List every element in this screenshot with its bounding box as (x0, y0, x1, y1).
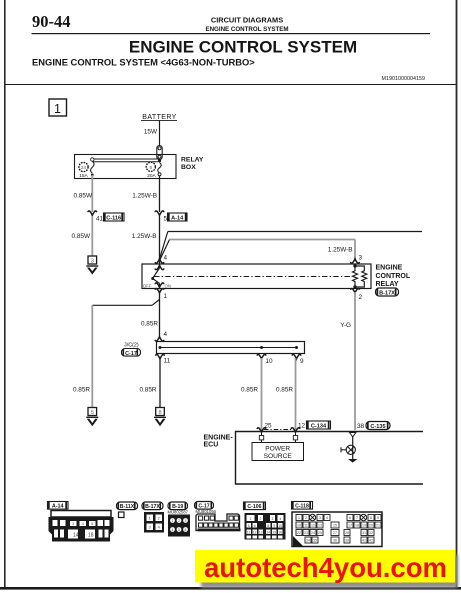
svg-text:16: 16 (278, 531, 282, 535)
svg-text:OFF: OFF (143, 284, 152, 289)
svg-text:C-116: C-116 (106, 216, 121, 222)
svg-text:CONTROL: CONTROL (376, 273, 411, 280)
svg-text:10: 10 (266, 358, 274, 365)
svg-text:5: 5 (248, 524, 250, 528)
connector drawing C-106 (245, 513, 286, 540)
svg-text:ON: ON (165, 284, 172, 289)
svg-text:21: 21 (376, 524, 380, 528)
svg-text:9: 9 (377, 516, 379, 520)
connector label B-19 (168, 502, 188, 510)
svg-text:7: 7 (356, 516, 358, 520)
svg-text:35: 35 (313, 539, 317, 543)
connector label B-17X (376, 288, 399, 297)
svg-text:0.85R: 0.85R (276, 387, 293, 394)
svg-text:M1901000004159: M1901000004159 (382, 76, 425, 82)
C-134 connector grouping dash-dot (264, 429, 292, 431)
svg-text:9: 9 (300, 358, 304, 365)
svg-text:3: 3 (149, 526, 151, 530)
svg-text:18: 18 (88, 533, 94, 539)
svg-text:B-17X: B-17X (379, 291, 395, 297)
ENGINE-ECU box (236, 432, 424, 485)
svg-text:B-17X: B-17X (145, 504, 160, 510)
wire from relay pin 1 down (159, 292, 161, 337)
svg-text:0.85R: 0.85R (241, 387, 258, 394)
svg-text:15: 15 (333, 524, 337, 528)
connector label B-17X (142, 502, 163, 510)
wire 0.85W from C-116 to ground 3 (91, 216, 93, 256)
svg-text:ENGINE CONTROL SYSTEM: ENGINE CONTROL SYSTEM (129, 38, 357, 57)
branch diagonal to gray bus (160, 240, 170, 261)
svg-text:4: 4 (82, 522, 84, 526)
ground 8 (154, 408, 166, 427)
svg-text:11: 11 (164, 358, 171, 365)
fuse 20A badge (146, 162, 156, 179)
svg-text:4: 4 (164, 255, 168, 262)
svg-text:MU802587: MU802587 (168, 510, 189, 515)
connector label C-17 (195, 502, 214, 510)
svg-text:4: 4 (158, 526, 160, 530)
gray line to relay pin 3 (170, 239, 356, 241)
svg-text:8: 8 (158, 410, 161, 416)
svg-text:25: 25 (265, 423, 273, 430)
svg-text:A-14: A-14 (52, 504, 64, 510)
connector label C-106 (244, 502, 266, 510)
svg-text:19: 19 (362, 524, 366, 528)
ECU pin 12 arrow (291, 423, 305, 433)
svg-text:22: 22 (297, 531, 301, 535)
connector label C-118 (292, 502, 313, 510)
svg-text:2: 2 (158, 517, 160, 521)
svg-text:23: 23 (304, 531, 308, 535)
svg-text:10: 10 (297, 524, 301, 528)
svg-text:4: 4 (172, 528, 174, 532)
branch diagonal to black bus (160, 232, 168, 260)
svg-text:8: 8 (370, 516, 372, 520)
black continuation line (168, 231, 422, 233)
RELAY BOX label (181, 157, 204, 172)
J/C pin 9 (292, 354, 304, 365)
engine control relay box (142, 264, 371, 289)
fuse 15A badge (79, 162, 89, 179)
svg-text:0.85R: 0.85R (73, 387, 90, 394)
svg-text:13: 13 (259, 531, 263, 535)
watermark banner shadow (201, 555, 458, 588)
svg-text:14: 14 (73, 533, 79, 539)
fusible link (157, 146, 162, 160)
J/C(2) pin 4 arrow (155, 331, 167, 341)
svg-text:8: 8 (267, 524, 269, 528)
svg-text:J/C(2): J/C(2) (124, 343, 139, 349)
svg-text:ENGINE: ENGINE (376, 265, 403, 272)
branch diagonal to left run (152, 300, 160, 306)
ENGINE CONTROL RELAY label (376, 265, 411, 289)
connector label C-17 (122, 349, 141, 357)
ECU internal ground at pin 38 (341, 433, 357, 463)
wire relay pin2 to ECU pin 38 (354, 292, 356, 430)
svg-text:15A: 15A (79, 173, 88, 179)
section marker 1 box (49, 99, 67, 116)
inline connector 5 A-14 (155, 211, 167, 223)
svg-text:11: 11 (304, 524, 308, 528)
svg-text:24: 24 (311, 531, 315, 535)
svg-text:2: 2 (260, 517, 262, 521)
wire 1.25W-B from A-14 to relay pin 4 (159, 216, 161, 264)
svg-text:15W: 15W (144, 129, 158, 136)
connector label C-135 (366, 422, 390, 431)
relay coil (353, 264, 367, 289)
subtitle rule (5, 84, 456, 85)
svg-text:5: 5 (178, 528, 180, 532)
relay pin 2 (351, 289, 363, 301)
svg-text:BATTERY: BATTERY (142, 114, 176, 121)
svg-text:1: 1 (149, 517, 151, 521)
connector label C-116 (104, 213, 125, 222)
svg-text:1.25W-B: 1.25W-B (328, 247, 353, 254)
svg-text:20A: 20A (147, 173, 156, 179)
svg-text:Y-G: Y-G (340, 322, 351, 329)
svg-text:0.85W: 0.85W (72, 233, 91, 240)
svg-text:6: 6 (149, 165, 152, 171)
svg-text:2: 2 (359, 294, 363, 301)
svg-text:38: 38 (357, 423, 365, 430)
relay switch (143, 264, 171, 289)
relay pin 3 (351, 255, 363, 264)
svg-text:1.25W-B: 1.25W-B (132, 193, 157, 200)
ground 5 (86, 408, 98, 427)
ENGINE-ECU label (204, 435, 234, 449)
svg-text:1: 1 (250, 517, 252, 521)
connector drawing C-17 (196, 514, 241, 531)
page right border (456, 0, 458, 589)
watermark banner (195, 550, 455, 583)
svg-text:31: 31 (362, 531, 366, 535)
svg-text:18: 18 (355, 524, 359, 528)
svg-text:autotech4you.com: autotech4you.com (204, 552, 447, 583)
svg-text:1: 1 (54, 102, 61, 116)
svg-text:3: 3 (91, 259, 94, 265)
svg-text:0.85W: 0.85W (74, 193, 93, 200)
svg-text:5: 5 (91, 410, 94, 416)
svg-text:MU801056: MU801056 (196, 509, 217, 514)
ECU pin 25 arrow (257, 423, 272, 433)
page left border (4, 0, 6, 589)
connector drawing B-19 (168, 515, 190, 537)
wire 0.85W from fuse to C-116 (91, 175, 93, 212)
J/C pin 11 (156, 354, 171, 364)
svg-text:36: 36 (333, 539, 337, 543)
wire pin9 to ECU pin 12 (295, 358, 297, 430)
svg-text:3: 3 (272, 517, 274, 521)
svg-text:ENGINE CONTROL SYSTEM <4G63-NO: ENGINE CONTROL SYSTEM <4G63-NON-TURBO> (32, 57, 255, 68)
wire pin11 to ground 8 (159, 358, 161, 408)
svg-text:28: 28 (345, 531, 349, 535)
svg-text:1.25W-B: 1.25W-B (132, 233, 157, 240)
svg-text:3: 3 (72, 522, 74, 526)
svg-text:1: 1 (298, 516, 300, 520)
wire pin10 to ECU pin 25 (261, 358, 263, 430)
svg-text:6: 6 (254, 524, 256, 528)
joint connector J/C(2) box (157, 342, 305, 354)
wire battery to fusible link (159, 121, 161, 147)
POWER SOURCE box (252, 443, 304, 461)
svg-text:ECU: ECU (204, 442, 219, 449)
svg-text:11: 11 (247, 531, 251, 535)
svg-text:13: 13 (318, 524, 322, 528)
svg-text:1: 1 (164, 293, 168, 300)
svg-text:0.85R: 0.85R (141, 321, 158, 328)
svg-text:BOX: BOX (181, 164, 196, 171)
svg-text:41: 41 (96, 216, 104, 223)
relay box outline (75, 155, 177, 179)
BATTERY label (141, 114, 177, 121)
svg-text:1: 1 (172, 519, 174, 523)
svg-text:15: 15 (272, 531, 276, 535)
connector drawing A-14 (49, 511, 114, 542)
header rule (32, 33, 431, 34)
relay pin 4 (155, 255, 167, 270)
svg-text:CIRCUIT DIAGRAMS: CIRCUIT DIAGRAMS (211, 16, 283, 25)
svg-text:C-135: C-135 (370, 424, 385, 430)
J/C pin 10 (257, 354, 273, 365)
fuse 20A element (158, 163, 162, 173)
svg-text:B-11X: B-11X (120, 504, 135, 510)
wire 1.25W-B fuse to A-14 (159, 176, 161, 213)
svg-text:17: 17 (348, 524, 352, 528)
svg-text:5: 5 (164, 216, 168, 223)
svg-text:24: 24 (81, 165, 87, 171)
svg-text:ENGINE CONTROL SYSTEM: ENGINE CONTROL SYSTEM (205, 26, 288, 33)
connector label A-14 (48, 502, 69, 510)
svg-text:3: 3 (359, 255, 363, 262)
svg-text:12: 12 (253, 531, 257, 535)
svg-text:4: 4 (164, 331, 168, 338)
svg-text:41: 41 (362, 539, 366, 543)
svg-text:C-106: C-106 (247, 504, 261, 510)
svg-text:90-44: 90-44 (32, 12, 71, 31)
svg-text:C-134: C-134 (311, 424, 327, 430)
svg-text:12: 12 (311, 524, 315, 528)
svg-text:C-17: C-17 (125, 351, 137, 357)
svg-text:3: 3 (319, 516, 321, 520)
svg-text:42: 42 (369, 539, 373, 543)
svg-text:4: 4 (326, 516, 328, 520)
connector drawing C-118 (292, 512, 382, 547)
svg-text:25: 25 (318, 531, 322, 535)
connector label B-11X (117, 502, 138, 510)
svg-text:9: 9 (273, 524, 275, 528)
svg-text:A-14: A-14 (171, 216, 184, 222)
svg-text:RELAY: RELAY (376, 281, 399, 288)
relay pin 1 (155, 283, 167, 300)
svg-text:10: 10 (278, 524, 282, 528)
svg-text:6: 6 (349, 516, 351, 520)
svg-text:0.85R: 0.85R (139, 387, 156, 394)
svg-text:5: 5 (91, 522, 93, 526)
svg-text:32: 32 (369, 531, 373, 535)
svg-text:C-118: C-118 (295, 504, 309, 510)
svg-text:2: 2 (305, 516, 307, 520)
fuse 15A element (91, 161, 95, 173)
ground 3 (86, 256, 98, 275)
connector drawing B-11X (119, 512, 125, 518)
svg-text:POWER: POWER (265, 446, 290, 453)
svg-text:3: 3 (185, 519, 187, 523)
svg-text:6: 6 (185, 528, 187, 532)
inline connector 41 C-116 (88, 211, 104, 223)
relay internal dash-dot line (154, 276, 352, 278)
svg-text:14: 14 (266, 531, 270, 535)
bus bar double line in relay box (91, 158, 161, 163)
svg-text:ENGINE-: ENGINE- (204, 435, 234, 442)
svg-text:2: 2 (178, 519, 180, 523)
connector drawing B-17X (144, 512, 164, 533)
page bottom border (0, 587, 461, 590)
svg-text:SOURCE: SOURCE (264, 453, 293, 460)
svg-text:4: 4 (280, 517, 282, 521)
left run to ground 5 (92, 304, 152, 306)
svg-text:38: 38 (345, 539, 349, 543)
svg-text:12: 12 (298, 423, 306, 430)
connector label A-14 (168, 213, 188, 222)
svg-text:34: 34 (306, 539, 310, 543)
ECU pin stubs (259, 432, 297, 443)
connector label C-134 (307, 421, 331, 430)
svg-text:RELAY: RELAY (181, 157, 204, 164)
svg-text:20: 20 (369, 524, 373, 528)
svg-text:27: 27 (333, 531, 337, 535)
